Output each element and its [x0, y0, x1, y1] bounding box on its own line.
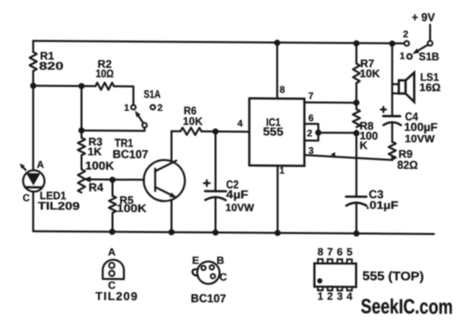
svg-text:A: A	[37, 160, 44, 171]
svg-text:BC107: BC107	[113, 149, 149, 161]
svg-text:3: 3	[337, 291, 343, 303]
svg-text:100K: 100K	[85, 160, 115, 172]
svg-text:3: 3	[308, 146, 313, 157]
svg-text:10K: 10K	[360, 68, 380, 80]
svg-text:K: K	[360, 140, 368, 152]
svg-text:2: 2	[307, 128, 312, 139]
svg-text:820: 820	[39, 61, 64, 73]
svg-text:4: 4	[237, 118, 243, 129]
svg-text:1: 1	[317, 291, 323, 303]
svg-text:R4: R4	[89, 182, 104, 194]
svg-text:16Ω: 16Ω	[419, 82, 440, 94]
svg-text:10VW: 10VW	[405, 133, 435, 145]
svg-text:8: 8	[317, 246, 323, 258]
svg-text:10VW: 10VW	[225, 202, 254, 214]
svg-text:6: 6	[337, 246, 343, 258]
svg-text:TIL209: TIL209	[38, 200, 80, 212]
svg-text:7: 7	[327, 246, 333, 258]
svg-text:C: C	[23, 193, 30, 204]
svg-text:1: 1	[279, 165, 285, 176]
svg-text:S1A: S1A	[144, 89, 161, 101]
svg-text:.01µF: .01µF	[366, 200, 399, 212]
svg-text:1: 1	[124, 103, 130, 114]
svg-text:8: 8	[280, 85, 285, 96]
svg-text:C: C	[219, 272, 227, 284]
svg-text:B: B	[217, 255, 225, 267]
svg-text:4: 4	[347, 291, 353, 303]
svg-text:C: C	[108, 280, 116, 292]
svg-text:S1B: S1B	[419, 51, 440, 63]
svg-text:1K: 1K	[88, 146, 102, 158]
svg-text:+ 9V: + 9V	[412, 12, 436, 24]
svg-text:TIL209: TIL209	[95, 291, 138, 303]
svg-text:10Ω: 10Ω	[96, 68, 114, 80]
svg-text:4µF: 4µF	[226, 189, 248, 201]
svg-text:A: A	[108, 247, 116, 259]
svg-text:555 (TOP): 555 (TOP)	[362, 269, 424, 283]
svg-text:100K: 100K	[117, 203, 147, 215]
svg-text:SeekIC.com: SeekIC.com	[361, 295, 453, 319]
svg-text:82Ω: 82Ω	[397, 160, 418, 172]
svg-text:555: 555	[263, 126, 284, 138]
svg-text:10K: 10K	[183, 116, 203, 128]
svg-text:2: 2	[403, 29, 408, 40]
svg-text:2: 2	[327, 291, 333, 303]
svg-text:7: 7	[308, 91, 313, 102]
svg-text:2: 2	[157, 103, 162, 114]
svg-text:5: 5	[347, 246, 353, 258]
svg-text:BC107: BC107	[191, 293, 226, 305]
svg-text:E: E	[192, 255, 199, 267]
svg-text:1: 1	[400, 51, 406, 62]
svg-text:6: 6	[308, 113, 313, 124]
